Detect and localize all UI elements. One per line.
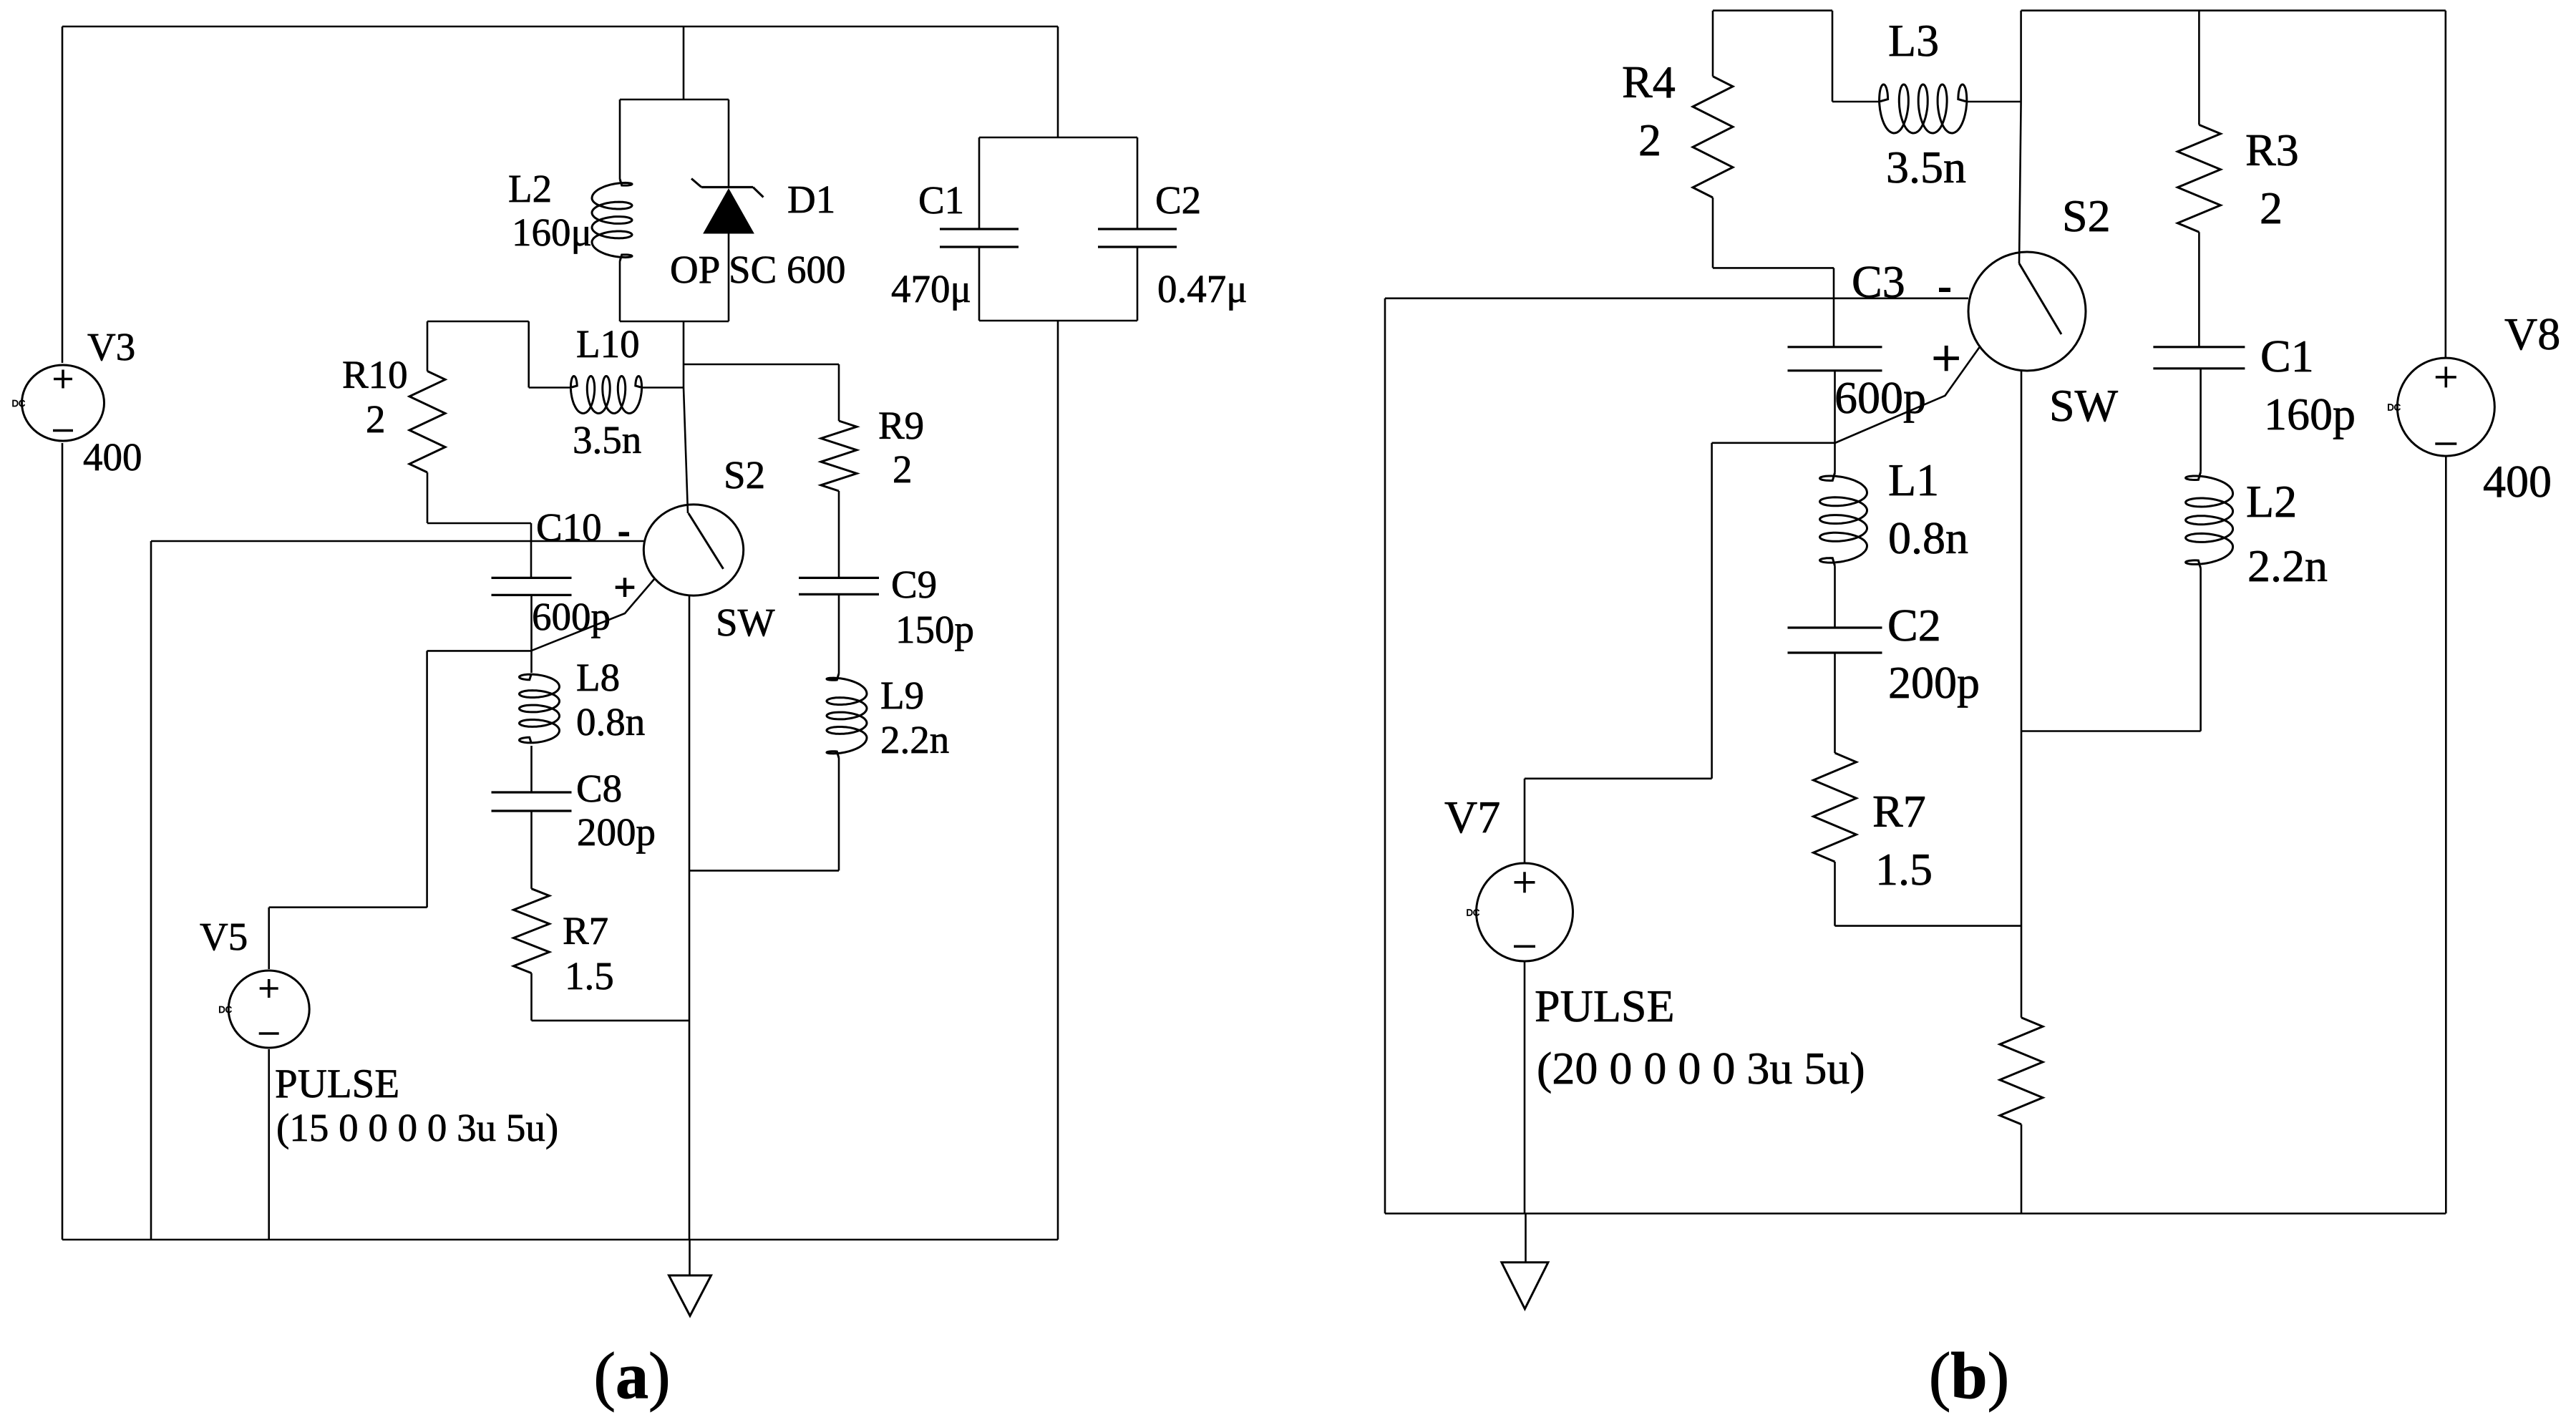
inductor L1: [1820, 473, 1867, 566]
svg-text:V7: V7: [1444, 792, 1500, 842]
inductor L8: [520, 673, 560, 744]
label 470u (C1 a): [891, 267, 971, 311]
label 2 (R4): [1638, 115, 1661, 165]
label 160u (L2): [512, 210, 592, 254]
svg-text:V5: V5: [200, 915, 248, 958]
label V3: [87, 325, 135, 369]
wire L9 bottom: [689, 758, 839, 870]
label 0.8n (L8): [576, 700, 645, 744]
svg-text:SW: SW: [716, 600, 775, 644]
wire C10 node horizontal (a): [151, 540, 643, 543]
label S2 (a): [724, 453, 765, 497]
label R10: [342, 353, 408, 397]
label L2 (b): [2246, 476, 2297, 527]
label 3.5n (L3): [1886, 142, 1966, 193]
svg-text:1.5: 1.5: [565, 954, 614, 998]
svg-text:DC: DC: [1467, 908, 1480, 918]
wire top rail left (b): [1713, 9, 1832, 11]
label SW (b): [2049, 380, 2119, 431]
caption (a): [593, 1339, 670, 1412]
svg-text:C10: C10: [536, 505, 602, 549]
wire cap box bottom edge (a): [979, 320, 1137, 322]
wire switch control horizontal (a): [427, 650, 531, 652]
svg-text:R7: R7: [563, 909, 608, 953]
label C3: [1852, 256, 1905, 307]
resistor R7 (a): [514, 889, 550, 973]
svg-text:2.2n: 2.2n: [2247, 540, 2328, 591]
wire R4 top stub: [1712, 11, 1714, 77]
capacitor C2 (b): [1788, 628, 1882, 653]
svg-text:L1: L1: [1888, 454, 1939, 505]
label OP SC 600 (D1): [670, 248, 846, 291]
svg-text:S2: S2: [2062, 190, 2111, 241]
inductor L10: [529, 376, 684, 414]
wire V5 bottom: [268, 1049, 270, 1240]
wire bottom rail (b): [1385, 1212, 2446, 1215]
label C8: [576, 767, 622, 810]
label C2 (a): [1155, 178, 1201, 222]
svg-text:L10: L10: [576, 322, 640, 366]
svg-text:2: 2: [366, 397, 386, 441]
svg-text:C2: C2: [1155, 178, 1201, 222]
wire L8 to C8: [530, 746, 533, 792]
resistor R10: [409, 321, 445, 472]
svg-text:V3: V3: [87, 325, 135, 369]
wire L2-D1 box top edge: [620, 99, 729, 101]
wire resistor to bottom rail (b): [2021, 1124, 2023, 1214]
wire R4 bottom: [1713, 198, 1834, 268]
svg-text:200p: 200p: [1888, 657, 1980, 708]
label minus (S2 a): [619, 532, 630, 536]
wire switch control vertical (b): [1711, 443, 1713, 779]
wire L2 bottom (b): [2200, 568, 2202, 731]
svg-text:D1: D1: [787, 177, 835, 221]
ground (b): [1502, 1263, 1548, 1309]
wire L3 right to top node (b): [1967, 101, 2021, 103]
svg-text:400: 400: [83, 435, 142, 479]
wire C3 to L1 node: [1834, 371, 1836, 473]
wire top node to switch (b): [2019, 11, 2021, 263]
svg-text:PULSE: PULSE: [1535, 981, 1675, 1031]
label L1: [1888, 454, 1939, 505]
wire top rail right (b): [2021, 9, 2446, 11]
label PULSE (V7): [1535, 981, 1675, 1031]
svg-text:470μ: 470μ: [891, 267, 971, 311]
svg-text:3.5n: 3.5n: [573, 418, 641, 462]
svg-text:0.8n: 0.8n: [576, 700, 645, 744]
svg-text:PULSE: PULSE: [275, 1061, 399, 1107]
wire V7 bottom: [1524, 961, 1526, 1214]
wire R3 to C1 (b): [2198, 232, 2200, 346]
wire C2 to R7 (b): [1834, 653, 1836, 753]
wire switch S2 bottom (a): [689, 595, 691, 1240]
label R4: [1622, 57, 1676, 107]
inductor L2 (b): [2186, 472, 2233, 568]
resistor R4: [1693, 77, 1733, 198]
label 160p (C1 b): [2264, 389, 2356, 439]
svg-text:C8: C8: [576, 767, 622, 810]
svg-text:L9: L9: [880, 673, 924, 717]
svg-text:C2: C2: [1887, 600, 1941, 651]
svg-text:R10: R10: [342, 353, 408, 397]
svg-text:SW: SW: [2049, 380, 2119, 431]
label PULSE params (V5): [276, 1106, 558, 1149]
label 3.5n (L10): [573, 418, 641, 462]
svg-text:600p: 600p: [1834, 372, 1926, 423]
label 200p (C2 b): [1888, 657, 1980, 708]
svg-text:R3: R3: [2245, 125, 2299, 175]
svg-text:(15 0 0 0 0 3u 5u): (15 0 0 0 0 3u 5u): [276, 1106, 558, 1149]
wire R4 node to C3: [1833, 268, 1835, 346]
wire R9 to C9: [838, 491, 840, 579]
label 150p (C9): [895, 608, 974, 651]
svg-text:2: 2: [893, 447, 913, 491]
resistor R (b bottom): [2000, 1018, 2043, 1124]
resistor R3: [2177, 125, 2220, 232]
label C9: [891, 563, 937, 606]
wire V5 top: [268, 908, 270, 969]
label R3: [2245, 125, 2299, 175]
label 200p (C8): [577, 810, 656, 854]
svg-text:L2: L2: [508, 167, 552, 210]
svg-text:V8: V8: [2504, 308, 2560, 359]
label SW (a): [716, 600, 775, 644]
capacitor C1 (b): [2153, 347, 2245, 369]
svg-text:200p: 200p: [577, 810, 656, 854]
svg-text:DC: DC: [218, 1004, 232, 1015]
wire C1 to L2 (b): [2200, 369, 2202, 472]
label 600p (C10): [532, 595, 611, 638]
wire V8 bottom: [2445, 456, 2447, 1214]
wire cap box top edge (a): [979, 137, 1137, 139]
label R9: [878, 404, 924, 447]
svg-text:C1: C1: [918, 178, 964, 222]
label 2 (R10): [366, 397, 386, 441]
resistor R7 (b): [1814, 753, 1857, 862]
svg-text:2: 2: [1638, 115, 1661, 165]
svg-text:L3: L3: [1888, 15, 1939, 66]
diode D1 (OP SC 600): [691, 99, 764, 321]
svg-text:2.2n: 2.2n: [880, 718, 949, 762]
wire switch bottom to L2 branch (b): [2021, 730, 2201, 732]
label L2: [508, 167, 552, 210]
wire C8 to R7: [530, 811, 533, 889]
wire switch control diagonal (b): [1835, 347, 1980, 444]
label 0.8n (L1): [1888, 512, 1968, 563]
label 400 (V8): [2483, 456, 2552, 507]
svg-text:0.47μ: 0.47μ: [1157, 267, 1248, 311]
svg-text:DC: DC: [12, 398, 26, 409]
wire left branch vertical (a): [150, 541, 152, 1240]
svg-text:600p: 600p: [532, 595, 611, 638]
label 1.5 (R7 b): [1875, 844, 1933, 895]
label 2 (R3): [2260, 183, 2283, 233]
svg-text:1.5: 1.5: [1875, 844, 1933, 895]
wire L2-D1 box bottom tap: [683, 321, 685, 388]
inductor L2: [592, 99, 632, 321]
label minus (S2 b): [1939, 288, 1950, 292]
label 2 (R9): [893, 447, 913, 491]
wire R9 top: [838, 364, 840, 421]
wire R10 top: [427, 321, 529, 388]
label plus (S2 a): [616, 578, 635, 597]
wire R10 bottom: [427, 472, 531, 579]
label 1.5 (R7 a): [565, 954, 614, 998]
svg-text:160p: 160p: [2264, 389, 2356, 439]
label C1 (a): [918, 178, 964, 222]
resistor R9: [821, 421, 857, 491]
wire bottom rail (a): [62, 1239, 1058, 1241]
label L9: [880, 673, 924, 717]
wire control to V7: [1525, 778, 1712, 780]
label R7 (b): [1872, 786, 1926, 837]
label C2 (b): [1887, 600, 1941, 651]
wire cap box bottom tap (a): [1057, 321, 1059, 1240]
svg-text:S2: S2: [724, 453, 765, 497]
label 2.2n (L9): [880, 718, 949, 762]
wire ground stem (a): [689, 1240, 691, 1275]
svg-text:C9: C9: [891, 563, 937, 606]
wire C3 node horizontal (b): [1385, 297, 1968, 299]
svg-text:C3: C3: [1852, 256, 1905, 307]
label 600p (C3): [1834, 372, 1926, 423]
inductor L9: [827, 673, 867, 758]
svg-text:L2: L2: [2246, 476, 2297, 527]
svg-text:160μ: 160μ: [512, 210, 592, 254]
wire switch control vertical (a): [426, 651, 428, 907]
label PULSE params (V7): [1537, 1043, 1865, 1094]
label L3: [1888, 15, 1939, 66]
switch S2 (a): [643, 505, 743, 595]
label 400 (V3): [83, 435, 142, 479]
label V5: [200, 915, 248, 958]
voltage source V8: [2387, 358, 2494, 456]
wire top rail to V8: [2445, 11, 2447, 359]
svg-text:3.5n: 3.5n: [1886, 142, 1966, 193]
wire switch node to R9 branch: [684, 364, 839, 366]
wire V7 top: [1524, 779, 1526, 863]
wire switch bottom (b): [2021, 371, 2023, 731]
svg-text:R7: R7: [1872, 786, 1926, 837]
svg-text:(a): (a): [593, 1339, 670, 1412]
label R7 (a): [563, 909, 608, 953]
wire R3 top stub: [2198, 11, 2200, 125]
caption (b): [1929, 1339, 2009, 1412]
wire C9 to L9: [838, 594, 840, 673]
voltage source V3: [12, 365, 105, 441]
wire top rail (a): [62, 26, 1058, 28]
svg-text:C1: C1: [2260, 331, 2314, 381]
wire switch control diagonal (a): [531, 578, 655, 651]
wire control to V5 (a): [269, 906, 427, 908]
label D1: [787, 177, 835, 221]
svg-text:2: 2: [2260, 183, 2283, 233]
wire stub top rail to L2-D1 box: [683, 26, 685, 99]
label plus (S2 b): [1934, 346, 1959, 371]
ground (a): [669, 1275, 711, 1316]
wire left rail (b): [1384, 298, 1386, 1214]
switch S2 (b): [1968, 252, 2086, 371]
svg-text:R4: R4: [1622, 57, 1676, 107]
voltage source V7: [1467, 863, 1573, 961]
label L8: [576, 656, 620, 699]
svg-text:OP SC 600: OP SC 600: [670, 248, 846, 291]
capacitor C10: [492, 578, 572, 595]
label V7: [1444, 792, 1500, 842]
wire L3 left stub: [1832, 11, 1880, 102]
voltage source V5: [218, 971, 309, 1048]
label S2 (b): [2062, 190, 2111, 241]
svg-text:L8: L8: [576, 656, 620, 699]
capacitor C3: [1788, 347, 1882, 371]
wire R7 bottom (b): [1835, 862, 2022, 926]
wire switch bottom to resistor (b): [2021, 731, 2023, 1018]
wire top rail to cap box (a): [1057, 26, 1059, 137]
svg-text:150p: 150p: [895, 608, 974, 651]
inductor L3: [1880, 84, 1967, 133]
svg-text:(b): (b): [1929, 1339, 2009, 1412]
svg-text:DC: DC: [2387, 402, 2401, 413]
label 2.2n (L2 b): [2247, 540, 2328, 591]
svg-text:(20 0 0 0 0 3u 5u): (20 0 0 0 0 3u 5u): [1537, 1043, 1865, 1094]
wire left rail upper (a): [62, 26, 64, 363]
wire ground stem (b): [1525, 1214, 1527, 1263]
capacitor C9: [799, 578, 879, 594]
label 0.47u (C2 a): [1157, 267, 1248, 311]
capacitor C1 (a): [940, 137, 1019, 321]
svg-text:0.8n: 0.8n: [1888, 512, 1968, 563]
wire L10 node to switch S2: [684, 388, 688, 514]
wire C10 to L8: [530, 595, 533, 673]
label L10: [576, 322, 640, 366]
capacitor C2 (a): [1098, 137, 1177, 321]
label PULSE (V5): [275, 1061, 399, 1107]
wire R7 bottom to switch (a): [532, 973, 690, 1021]
svg-text:R9: R9: [878, 404, 924, 447]
wire switch control horizontal (b): [1712, 442, 1835, 444]
capacitor C8: [492, 792, 572, 811]
wire L2-D1 box bottom edge: [620, 321, 729, 323]
label V8: [2504, 308, 2560, 359]
wire left rail lower (a): [62, 443, 64, 1240]
label C1 (b): [2260, 331, 2314, 381]
svg-text:400: 400: [2483, 456, 2552, 507]
wire L1 to C2 (b): [1834, 566, 1836, 628]
label C10: [536, 505, 602, 549]
